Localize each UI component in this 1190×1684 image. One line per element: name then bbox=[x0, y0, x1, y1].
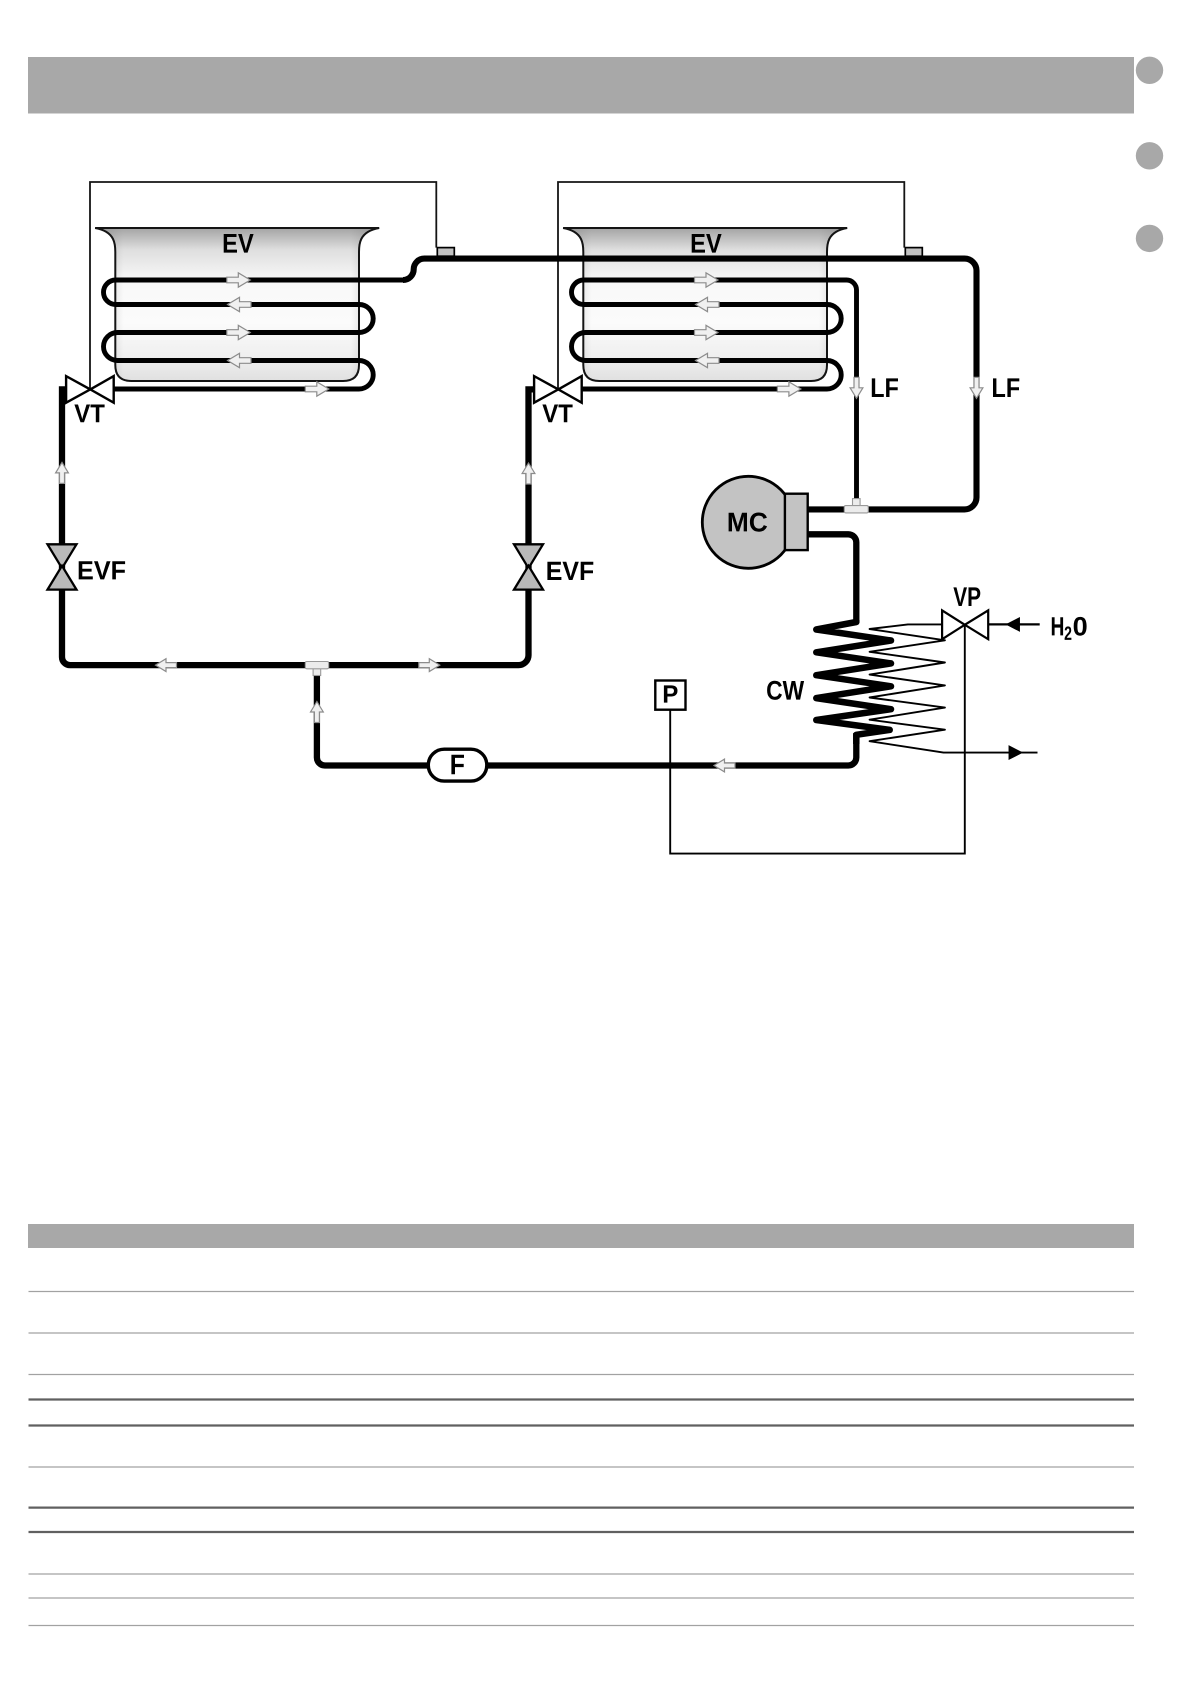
water inlet thin line bbox=[988, 623, 1039, 625]
flow arrow EV-left row3 bbox=[227, 325, 251, 339]
water outlet arrowhead bbox=[1009, 746, 1021, 758]
flow arrows group bbox=[56, 273, 983, 772]
coil serpentine right EV + LF drop to compressor bbox=[572, 280, 857, 509]
tee fitting on suction line bbox=[844, 499, 868, 513]
flow arrow right riser bbox=[522, 463, 535, 484]
label EV right bbox=[692, 234, 722, 253]
pressure valve VP bbox=[942, 610, 988, 639]
flow arrow EV-right row4 bbox=[696, 353, 720, 367]
table rule line 2 bbox=[29, 1332, 1135, 1334]
label VP bbox=[953, 587, 980, 606]
flow arrow EV-right outlet row bbox=[777, 382, 801, 396]
coil serpentine left EV + suction line to LF riser bbox=[104, 280, 405, 389]
condenser CW refrigerant zigzag bbox=[816, 620, 891, 744]
bullet 2 bbox=[1136, 142, 1163, 169]
label H2O bbox=[1052, 617, 1087, 640]
bullet 1 bbox=[1136, 57, 1163, 84]
table rule line 3 bbox=[29, 1374, 1135, 1376]
compressor discharge pipe to condenser bbox=[808, 534, 857, 623]
condenser water zigzag and water outlet bbox=[870, 624, 1038, 752]
compressor flange bbox=[785, 494, 808, 550]
table rule line 10 bbox=[29, 1597, 1135, 1599]
liquid pipe left branch / distribution line / right branch bbox=[62, 389, 534, 665]
solenoid valve EVF right bbox=[514, 544, 543, 589]
flow arrow EV-left row1 bbox=[227, 273, 251, 287]
flow arrow LF line right EV bbox=[850, 377, 863, 398]
tee fitting on distribution line bbox=[305, 662, 328, 676]
sensor bulb tab left bbox=[437, 248, 454, 257]
table rule line 5 bbox=[29, 1424, 1135, 1426]
table rule line 1 bbox=[29, 1291, 1135, 1293]
pressostat P box bbox=[655, 681, 685, 710]
label LF inner bbox=[872, 378, 898, 397]
flow arrow left riser bbox=[56, 462, 69, 483]
label EVF right bbox=[547, 562, 593, 580]
flow arrow tee riser bbox=[311, 702, 324, 723]
flow arrow EV-right row2 bbox=[696, 297, 720, 311]
label F bbox=[451, 755, 464, 775]
filter F stadium bbox=[428, 749, 487, 781]
label EV left bbox=[224, 234, 254, 253]
label P bbox=[664, 685, 678, 702]
compressor MC circle bbox=[702, 476, 794, 568]
pressostat sensing line loop bbox=[670, 624, 965, 853]
table rule line 6 bbox=[29, 1466, 1135, 1468]
enclosure outline right EV bbox=[558, 182, 904, 389]
flow arrow EV-left row2 bbox=[228, 297, 252, 311]
table rule line 11 bbox=[29, 1625, 1135, 1627]
sensor bulb tab right bbox=[905, 248, 922, 257]
flow arrow return line bbox=[714, 759, 735, 772]
flow arrow LF line left EV bbox=[970, 377, 983, 398]
table rule line 9 bbox=[29, 1573, 1135, 1575]
flow arrow EV-right row3 bbox=[695, 325, 719, 339]
footer grey bar bbox=[28, 1224, 1134, 1248]
suction line from left EV to compressor bbox=[403, 259, 977, 510]
label VT left bbox=[74, 405, 104, 423]
bullet 3 bbox=[1136, 225, 1163, 252]
label LF outer bbox=[993, 378, 1019, 397]
evaporator EV right body bbox=[563, 228, 847, 381]
water inlet arrowhead bbox=[1007, 618, 1019, 630]
flow arrow EV-right row1 bbox=[695, 273, 719, 287]
expansion valve VT left bbox=[66, 376, 114, 403]
enclosure outline left EV bbox=[90, 182, 436, 389]
expansion valve VT right bbox=[534, 376, 582, 403]
label EVF left bbox=[79, 561, 125, 579]
table rule line 8 bbox=[29, 1531, 1135, 1533]
flow arrow EV-left outlet row bbox=[305, 382, 329, 396]
flow arrow distribution right bbox=[419, 659, 440, 672]
flow arrow distribution left bbox=[156, 659, 177, 672]
label VT right bbox=[542, 405, 572, 423]
table rule line 4 bbox=[29, 1398, 1135, 1400]
solenoid valve EVF left bbox=[48, 544, 77, 589]
evaporator EV left body bbox=[95, 228, 379, 381]
flow arrow EV-left row4 bbox=[228, 353, 252, 367]
label MC bbox=[729, 513, 768, 532]
label CW bbox=[767, 681, 804, 700]
liquid return pipe: condenser to filter to tee riser bbox=[317, 671, 856, 766]
table rule line 7 bbox=[29, 1506, 1135, 1508]
header grey bar bbox=[28, 57, 1134, 114]
